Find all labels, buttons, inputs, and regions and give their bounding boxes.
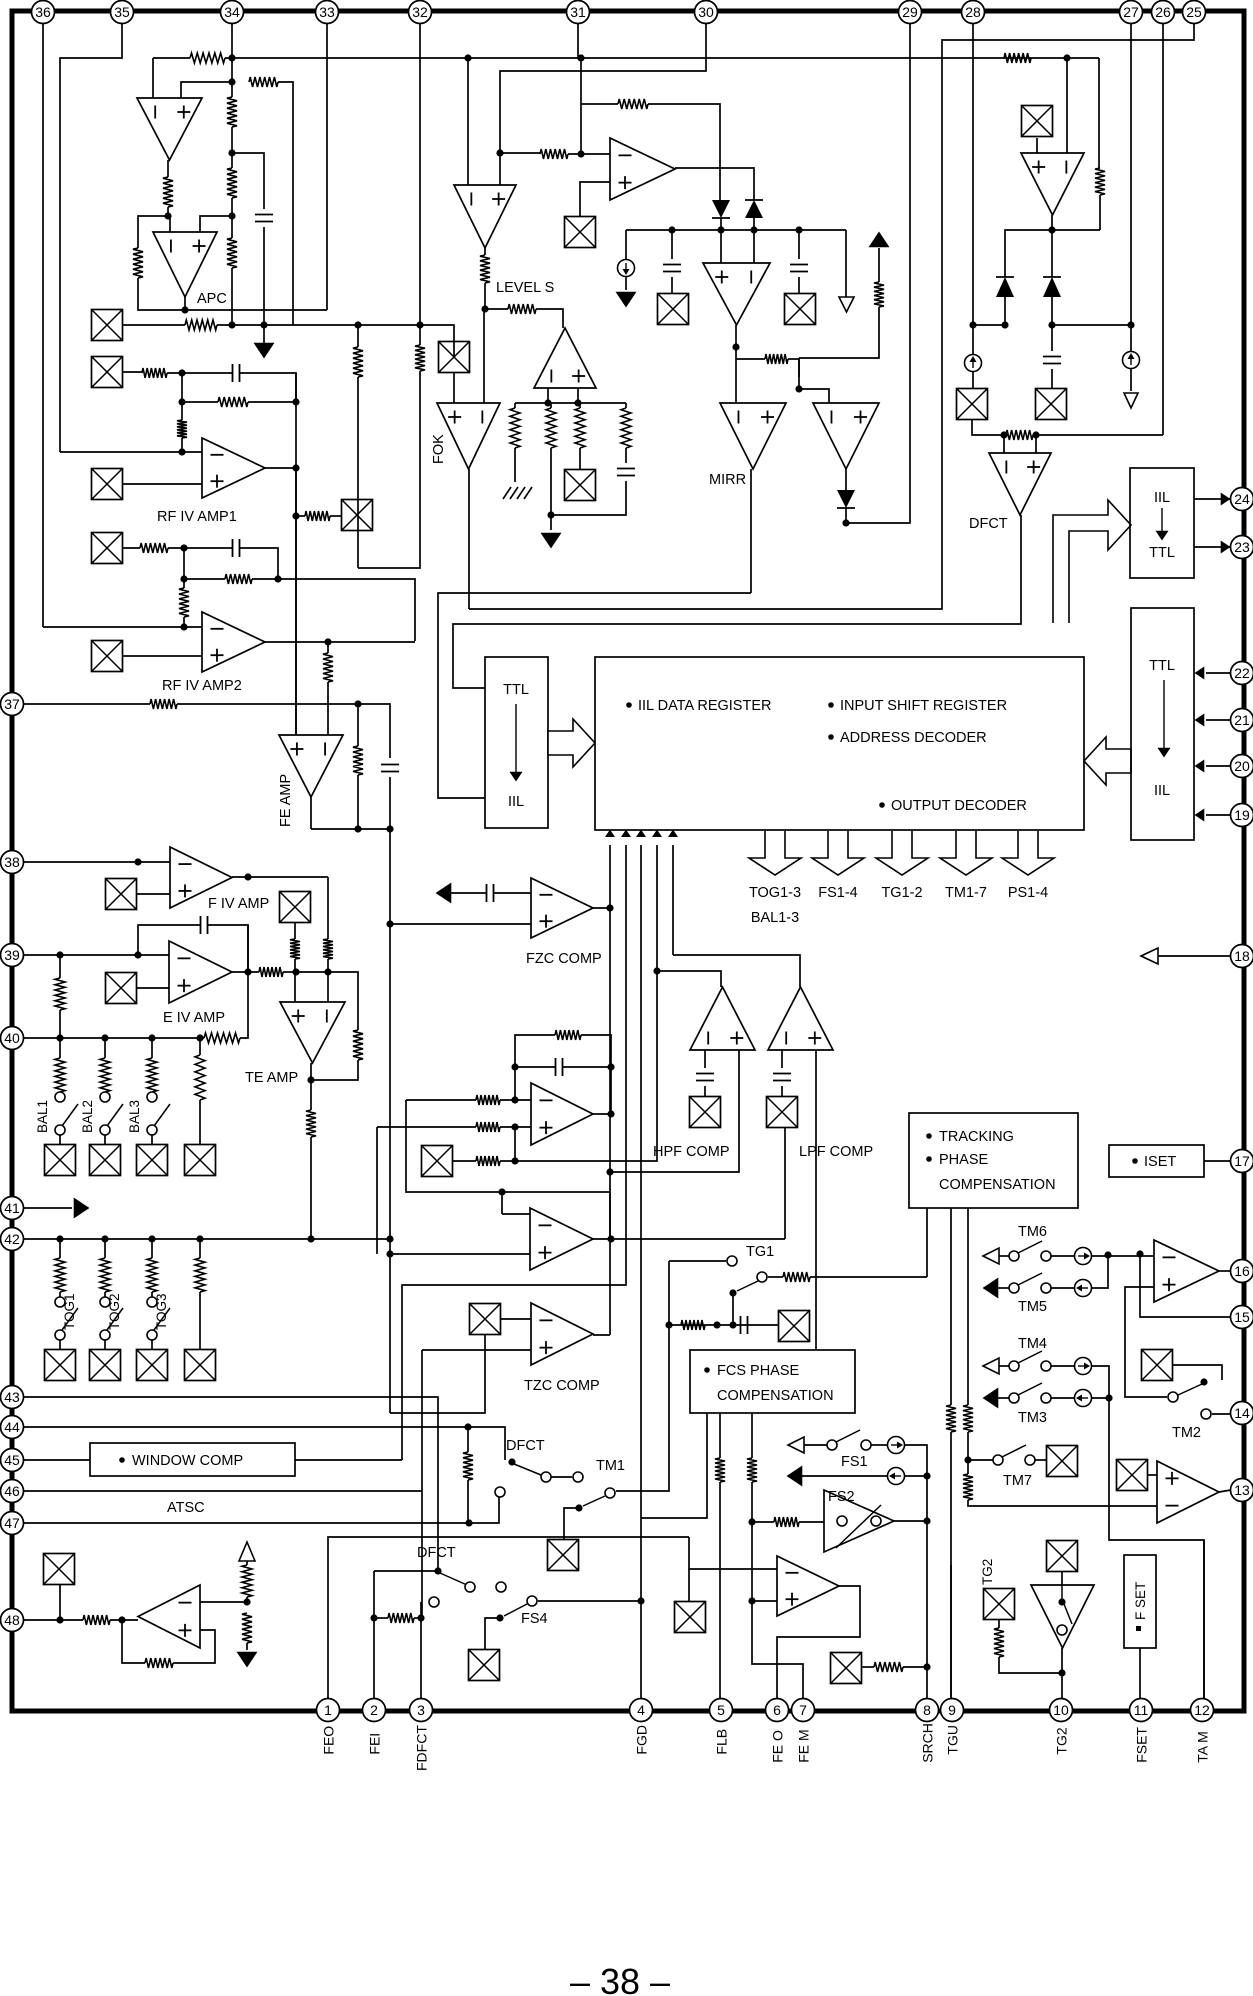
node p39 b xyxy=(134,951,141,958)
svg-text:22: 22 xyxy=(1234,665,1250,681)
switch tm4 c1 xyxy=(1009,1361,1019,1371)
wire bal4 down xyxy=(199,1100,201,1145)
node rf2 fb b xyxy=(180,575,187,582)
crossed box BAL x105 xyxy=(90,1145,121,1176)
wire iset to pin17 xyxy=(1204,1160,1231,1162)
wire p44 chain down xyxy=(467,1427,469,1452)
switch tm4 c2 xyxy=(1041,1361,1051,1371)
switch BAL2 lever xyxy=(107,1104,123,1126)
node tr d1 xyxy=(1001,321,1008,328)
resistor rail R2 xyxy=(546,408,556,448)
svg-text:HPF COMP: HPF COMP xyxy=(653,1144,730,1160)
resistor rf1 tap R xyxy=(305,511,330,521)
wire pin32 down xyxy=(419,24,421,345)
wire mirr arrow down xyxy=(799,307,879,358)
svg-text:IIL: IIL xyxy=(508,794,524,810)
pin 15 xyxy=(1231,1306,1253,1329)
wire pin32 tail xyxy=(358,371,420,568)
svg-text:3: 3 xyxy=(417,1702,425,1718)
bullet fcs xyxy=(704,1367,710,1373)
wire pin46 line xyxy=(23,1490,422,1492)
wire p48 r right xyxy=(110,1619,138,1621)
wire mid minus drop xyxy=(406,1100,502,1192)
crossed box FOK in xyxy=(439,342,470,373)
node bus-34 xyxy=(228,54,235,61)
svg-text:ATSC: ATSC xyxy=(167,1500,205,1516)
node apc out xyxy=(181,306,188,313)
pin 13 xyxy=(1231,1479,1253,1502)
wire amp16 out xyxy=(1219,1270,1231,1272)
wire BAL1 down xyxy=(59,1135,61,1145)
wire lowmid fb xyxy=(502,1192,610,1242)
wire tg1 left xyxy=(669,1260,726,1262)
wire pin to conv y720 xyxy=(1206,719,1231,721)
switch tm4 lever xyxy=(1018,1351,1042,1363)
resistor BAL R2 xyxy=(100,1058,110,1092)
svg-text:43: 43 xyxy=(4,1389,20,1405)
wire apc to amp2 xyxy=(138,216,168,248)
capacitor rail C xyxy=(617,469,635,476)
block arrow PS1-4 xyxy=(1002,831,1054,875)
svg-text:FGD: FGD xyxy=(634,1725,650,1755)
node mid r3 xyxy=(511,1157,518,1164)
resistor APC R2 xyxy=(249,77,278,87)
node rf2 fb a xyxy=(180,544,187,551)
crossed box TOG x105 xyxy=(90,1350,121,1381)
wire tm3 m xyxy=(1051,1397,1074,1399)
resistor p48 R xyxy=(83,1615,110,1625)
wire mid minus lead xyxy=(406,1099,476,1101)
wire mid plus xyxy=(500,1126,531,1128)
resistor DFCT fb xyxy=(1006,430,1033,440)
crossed box TG1 xyxy=(779,1311,810,1342)
wire rf2 fb row2 xyxy=(184,578,225,580)
wire fb row2 r xyxy=(248,401,296,403)
pin 5 xyxy=(710,1699,733,1722)
wire fs4 right xyxy=(538,1600,641,1602)
switch dfct1 c1 xyxy=(541,1472,551,1482)
wire fcs out2 down xyxy=(719,1482,721,1699)
switch tm3 c2 xyxy=(1041,1393,1051,1403)
svg-text:48: 48 xyxy=(4,1612,20,1628)
wire tr box down xyxy=(1036,138,1038,153)
wire fe right input xyxy=(327,682,329,735)
block register box xyxy=(595,657,1084,830)
wire p39 r branch xyxy=(59,955,61,978)
op-amp TZC COMP xyxy=(531,1303,593,1365)
wire mc tap r xyxy=(788,359,799,377)
wire rail col4 dd xyxy=(551,481,626,515)
node eiv fb out xyxy=(244,968,251,975)
wire fzc minus lead xyxy=(451,892,486,894)
switch tg1 lever xyxy=(737,1281,758,1291)
op-amp HPF COMP xyxy=(690,987,755,1050)
wire tzc minus xyxy=(501,1318,531,1320)
wire fiv to te xyxy=(327,877,329,939)
crossed box TG2 amp top xyxy=(1047,1541,1078,1572)
resistor pin32 R xyxy=(415,345,425,371)
resistor rail R1 xyxy=(510,408,520,448)
node hpf branch xyxy=(653,967,660,974)
wire d1 down xyxy=(720,218,722,230)
resistor rf2 fb R1 xyxy=(140,543,168,553)
svg-text:DFCT: DFCT xyxy=(506,1438,545,1454)
wire tm4 r xyxy=(1092,1366,1109,1398)
switch TOG2 bottom xyxy=(100,1330,110,1340)
node p2 r xyxy=(370,1614,377,1621)
resistor te out R xyxy=(306,1110,316,1137)
resistor TOG3 R xyxy=(147,1258,157,1292)
node fs4 out xyxy=(637,1597,644,1604)
wire tr right in xyxy=(1066,58,1068,153)
svg-text:11: 11 xyxy=(1134,1702,1149,1718)
wire pin33 down xyxy=(326,24,328,310)
wire APC amp2 out xyxy=(184,297,186,310)
wire amp13 out xyxy=(1219,1490,1231,1492)
crossed box TG2 xyxy=(984,1589,1015,1620)
resistor mc tap R xyxy=(765,354,788,364)
svg-text:TM4: TM4 xyxy=(1018,1336,1047,1352)
wire hpf in l xyxy=(704,1050,706,1068)
current source tm6 xyxy=(1075,1248,1092,1265)
wire tr link 28 xyxy=(973,324,1005,326)
current source fs1a xyxy=(888,1437,905,1454)
node apc row325 b xyxy=(260,321,267,328)
arrow down atsc xyxy=(238,1653,256,1667)
wire rf2 fb col xyxy=(183,548,185,579)
resistor TOG R4 xyxy=(195,1258,205,1292)
wire p28 cs xyxy=(972,325,974,354)
svg-text:24: 24 xyxy=(1234,491,1250,507)
wire rf1 tap r xyxy=(330,515,342,517)
wire dfct2 left xyxy=(374,1570,438,1572)
resistor mirr arrow R xyxy=(874,282,884,307)
arrowhead conv y815 xyxy=(1196,810,1204,820)
pin 18 xyxy=(1231,945,1253,968)
wire lowmid out xyxy=(593,1238,785,1240)
wire rf2 fb down xyxy=(183,579,185,588)
wire flb plus down xyxy=(752,1601,803,1699)
wire amp13 plus xyxy=(1148,1474,1157,1476)
wire pin39 line xyxy=(23,954,169,956)
svg-text:TG1-2: TG1-2 xyxy=(881,885,922,901)
crossed box HPF xyxy=(690,1097,721,1128)
capacitor tr C xyxy=(1043,357,1061,364)
wire fe out xyxy=(310,797,312,829)
switch tm7 c2 xyxy=(1025,1455,1035,1465)
svg-text:FOK: FOK xyxy=(431,434,447,464)
resistor mid fb R xyxy=(555,1030,581,1040)
resistor TOG1 R xyxy=(55,1258,65,1292)
wire dfct out xyxy=(453,515,1021,688)
crossed box APC in2 xyxy=(92,357,123,388)
resistor TG1 R xyxy=(783,1272,810,1282)
svg-text:1: 1 xyxy=(324,1702,332,1718)
wire cs down xyxy=(625,277,627,290)
block arrow TM1-7 xyxy=(940,831,992,875)
wire fe fb bottom xyxy=(311,828,390,830)
wire rail col4 d xyxy=(625,448,627,463)
wire ttl2 arrow xyxy=(1163,680,1165,748)
wire pin18 line xyxy=(1158,955,1231,957)
node mid fb b xyxy=(607,1063,614,1070)
node p42 x152 xyxy=(148,1235,155,1242)
svg-text:FCS PHASE: FCS PHASE xyxy=(717,1363,800,1379)
bullet window xyxy=(119,1457,125,1463)
wire fs1a line xyxy=(804,1444,827,1446)
wire cap1 branch xyxy=(671,230,673,259)
resistor fb R xyxy=(142,368,167,378)
node fb a xyxy=(178,369,185,376)
wire rf1 plus xyxy=(122,483,202,485)
crossed box TM7 xyxy=(1047,1446,1078,1477)
op-amp LEVEL-D xyxy=(534,328,596,388)
resistor te in R2 xyxy=(323,939,333,959)
crossed box BAL x60 xyxy=(45,1145,76,1176)
op-amp ATSC xyxy=(138,1585,200,1648)
block WINDOW COMP xyxy=(90,1443,295,1476)
wire fset down xyxy=(1139,1648,1141,1699)
crossed box FS4 xyxy=(469,1650,500,1681)
wire tm5 l xyxy=(998,1287,1009,1289)
svg-text:F IV AMP: F IV AMP xyxy=(208,896,269,912)
diode mirror D1 xyxy=(712,200,730,218)
node te out xyxy=(307,1076,314,1083)
capacitor fb C xyxy=(233,364,240,382)
switch dfct2 lever xyxy=(440,1573,467,1585)
wire atsc minus xyxy=(200,1601,247,1603)
wire ttl arrow xyxy=(515,704,517,772)
node rf2 minus xyxy=(180,623,187,630)
node mrail a xyxy=(668,226,675,233)
wire p27 cs xyxy=(1130,325,1132,351)
switch fs2 slash xyxy=(836,1505,881,1548)
wire lpf out xyxy=(673,955,800,987)
svg-text:TG1: TG1 xyxy=(746,1244,774,1260)
resistor te in R1a xyxy=(259,967,283,977)
wire row1618 r xyxy=(414,1617,421,1619)
wire pin35 to RF IV AMP1 - input xyxy=(60,451,202,453)
wire tgu down xyxy=(950,1565,952,1699)
block arrow to IIL-TTL xyxy=(1053,500,1131,623)
switch TOG3 lever xyxy=(154,1308,170,1330)
wire fb right xyxy=(240,373,296,402)
svg-text:FS1-4: FS1-4 xyxy=(818,885,858,901)
wire TOG3 down xyxy=(151,1340,153,1350)
wire lowmid minus xyxy=(502,1213,530,1215)
wire mid fb left xyxy=(515,1035,555,1100)
crossed box BAL x200 xyxy=(185,1145,216,1176)
svg-text:COMPENSATION: COMPENSATION xyxy=(717,1388,834,1404)
node fzc plus xyxy=(386,920,393,927)
wire tm1 right xyxy=(616,1261,669,1491)
wire bus x673 xyxy=(672,845,674,955)
wire cap branch down xyxy=(263,227,265,325)
svg-text:4: 4 xyxy=(637,1702,645,1718)
pin 23 xyxy=(1231,536,1253,559)
op-amp top-right xyxy=(1021,153,1084,215)
resistor mid in R2 xyxy=(476,1122,500,1132)
wire mc out xyxy=(735,325,737,403)
svg-text:TG2: TG2 xyxy=(980,1559,995,1585)
wire trk out3 xyxy=(967,1208,969,1405)
svg-text:6: 6 xyxy=(773,1702,781,1718)
crossed box TZC xyxy=(470,1304,501,1335)
pin 34 xyxy=(221,1,244,24)
wire fe r branch xyxy=(357,704,359,746)
wire apc r4 down xyxy=(138,278,185,310)
pin 17 xyxy=(1231,1150,1253,1173)
svg-text:33: 33 xyxy=(319,4,335,20)
arrowhead conv y720 xyxy=(1196,715,1204,725)
wire TOG2 up xyxy=(104,1239,106,1258)
wire fok out bus xyxy=(469,24,1194,609)
wire mid fb right xyxy=(581,1035,611,1114)
node bus-right xyxy=(1063,54,1070,61)
block arrow TOG1-3 xyxy=(749,831,801,875)
crossed box p28 xyxy=(957,389,988,420)
wire pin15 link xyxy=(1140,1256,1231,1317)
arrowhead conv y766 xyxy=(1196,761,1204,771)
switch tm2 lever xyxy=(1178,1384,1202,1395)
wire fok left in xyxy=(453,342,455,357)
crossed box te top xyxy=(280,892,311,923)
wire level e right in xyxy=(499,153,501,185)
switch BAL2 bottom xyxy=(100,1125,110,1135)
wire fb row2 xyxy=(182,401,218,403)
switch TOG3 top xyxy=(147,1297,157,1307)
wire mrail left down xyxy=(625,230,627,259)
wire pin48 line xyxy=(23,1619,83,1621)
current source p28 xyxy=(965,355,982,372)
switch dfct1 c3 xyxy=(495,1487,505,1497)
switch fs2 inner c2 xyxy=(871,1516,881,1526)
switch dfct1 c2 xyxy=(573,1472,583,1482)
wire TOG1 down xyxy=(59,1340,61,1350)
crossed box SRCH xyxy=(831,1653,862,1684)
svg-text:46: 46 xyxy=(4,1483,20,1499)
wire fb down xyxy=(181,402,183,420)
wire rf2 fb l xyxy=(122,547,140,549)
resistor p44 R2 xyxy=(463,1452,473,1480)
wire p3 c link xyxy=(420,1602,422,1618)
resistor rail R3 xyxy=(575,408,585,448)
wire te fb branch xyxy=(328,972,358,1030)
svg-text:DFCT: DFCT xyxy=(969,516,1008,532)
wire tr row325 xyxy=(1052,324,1131,326)
svg-text:8: 8 xyxy=(923,1702,931,1718)
svg-text:IIL: IIL xyxy=(1154,490,1170,506)
crossed box tr xyxy=(1036,389,1067,420)
node mirr2 xyxy=(842,519,849,526)
svg-text:TM6: TM6 xyxy=(1018,1224,1047,1240)
switch tg2 inner lever xyxy=(1064,1604,1072,1624)
resistor atsc fb R xyxy=(145,1658,173,1668)
node fs2 out xyxy=(923,1517,930,1524)
switch tg2 inner c xyxy=(1057,1625,1067,1635)
wire APC amp2 inputs xyxy=(168,216,170,232)
wire tm2 pin14 xyxy=(1212,1413,1231,1415)
op-amp FZC COMP xyxy=(531,878,593,938)
wire pin2 vertical xyxy=(373,1571,375,1699)
capacitor fe fb C xyxy=(381,765,399,772)
node tg1 row a xyxy=(665,1321,672,1328)
wire pin47 line xyxy=(23,1497,499,1523)
wire fcs out2 xyxy=(719,1413,721,1458)
capacitor tg1 row C xyxy=(741,1316,748,1334)
wire rail col2 d xyxy=(550,448,552,515)
wire mirr2 input link xyxy=(799,389,829,403)
wire row1618 xyxy=(374,1617,388,1619)
wire rail col1 d xyxy=(514,448,516,482)
wire tr d2 down xyxy=(1051,297,1053,325)
switch BAL2 top xyxy=(100,1092,110,1102)
wire tg1 down xyxy=(732,1293,734,1325)
crossed box LPF xyxy=(767,1097,798,1128)
op-amp FE AMP xyxy=(279,735,343,797)
open arrow pin18 xyxy=(1141,948,1158,964)
op-amp mid xyxy=(531,1083,593,1145)
node te row a xyxy=(292,968,299,975)
node fe fb corner xyxy=(386,825,393,832)
crossed box atsc xyxy=(44,1554,75,1585)
switch tm2 c1 xyxy=(1168,1392,1178,1402)
capacitor mid fb C xyxy=(556,1058,563,1076)
current source fs1b xyxy=(888,1468,905,1485)
arrowhead iil conv xyxy=(1157,532,1167,540)
resistor pin34 Rc xyxy=(227,238,237,268)
svg-text:35: 35 xyxy=(114,4,130,20)
wire dfct in r xyxy=(1035,435,1037,453)
wire te r2 down xyxy=(327,959,329,1002)
pin 37 xyxy=(1,693,24,716)
svg-text:FZC COMP: FZC COMP xyxy=(526,951,602,967)
wire TOG3 mid xyxy=(151,1292,153,1297)
switch tm6 lever xyxy=(1018,1241,1042,1253)
node mrail d xyxy=(795,226,802,233)
resistor fe in R xyxy=(323,653,333,682)
wire tg2 r down xyxy=(999,1657,1061,1673)
pin 1 xyxy=(317,1699,340,1722)
wire mid plus lead xyxy=(377,1126,476,1128)
wire pin43 line xyxy=(23,1397,438,1571)
wire fzc out xyxy=(593,907,610,909)
node rail a xyxy=(544,399,551,406)
wire bus right end xyxy=(1098,58,1100,168)
crossed box amp13 xyxy=(1117,1460,1148,1491)
arrowhead register in 4 xyxy=(654,831,661,836)
pin 45 xyxy=(1,1449,24,1472)
svg-text:19: 19 xyxy=(1234,807,1250,823)
svg-text:ISET: ISET xyxy=(1144,1154,1176,1170)
wire te fb row xyxy=(311,1060,358,1080)
wire te box down xyxy=(294,923,296,939)
svg-text:41: 41 xyxy=(4,1200,20,1216)
wire srch down xyxy=(926,1667,928,1699)
wire tm4 m xyxy=(1051,1365,1074,1367)
wire mid r3 xyxy=(500,1157,657,1161)
svg-text:40: 40 xyxy=(4,1030,20,1046)
switch BAL1 top xyxy=(55,1092,65,1102)
wire flb plus xyxy=(752,1600,777,1602)
wire pin34 chain2 xyxy=(231,127,233,168)
wire te row xyxy=(283,971,296,973)
wire atsc up arrow link xyxy=(246,1561,248,1565)
wire col2 stub xyxy=(550,515,552,530)
node rf1 minus xyxy=(178,448,185,455)
wire fs2 in2 xyxy=(799,1521,824,1523)
wire tzc out xyxy=(593,1334,610,1336)
